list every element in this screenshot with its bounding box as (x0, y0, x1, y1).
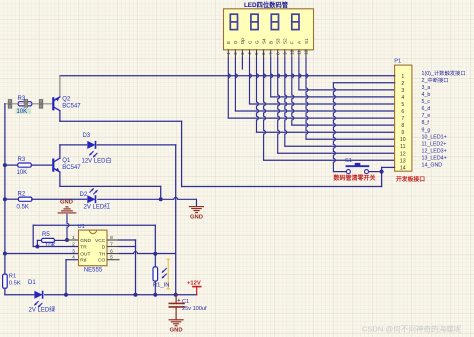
svg-text:S1: S1 (345, 158, 352, 164)
wire A: TR net top (33, 225, 155, 254)
svg-text:R3: R3 (18, 96, 26, 102)
junction rail/pin4 (64, 293, 68, 297)
junction TH/R1_IN (153, 252, 157, 256)
wire D3 cathode right (97, 144, 176, 146)
wire Q2 net: y121 across (60, 120, 182, 122)
svg-text:C1: C1 (182, 299, 189, 305)
ground GND1 (inverted, above pin1 wire) (58, 207, 76, 213)
svg-text:4: 4 (72, 255, 75, 261)
label GND1 (60, 200, 73, 206)
svg-text:GND: GND (190, 214, 203, 220)
wire left rail (4, 104, 6, 274)
svg-text:11_LED2+: 11_LED2+ (422, 141, 447, 147)
wire left rail to R3 base (gray/selected) (5, 103, 53, 105)
label R5 value 10K (45, 243, 56, 249)
svg-text:8: 8 (401, 123, 404, 129)
svg-text:2_中断接口: 2_中断接口 (422, 76, 449, 84)
wire display pin 10 (F) to P1 pin 8 (292, 57, 395, 125)
power +12V (193, 287, 201, 295)
wire rail to R2 (5, 198, 19, 200)
wire R2 to D2 (32, 198, 87, 200)
label R2 designator (18, 191, 26, 197)
transistor Q2 BC547 (53, 97, 60, 111)
svg-text:BC547: BC547 (62, 104, 81, 110)
wire Q2 collector down (59, 111, 61, 122)
svg-text:12V LED白: 12V LED白 (82, 157, 112, 165)
wire switch right lead (369, 171, 382, 173)
svg-text:开发板接口: 开发板接口 (396, 175, 425, 183)
svg-text:GND: GND (80, 238, 91, 244)
svg-text:Rd: Rd (80, 258, 86, 264)
svg-text:9: 9 (401, 130, 404, 136)
junction left rail OUT (3, 252, 7, 256)
photoresistor R1_IN body (153, 267, 158, 281)
wire R5 right to junction (55, 239, 68, 241)
label S1 (345, 158, 352, 164)
svg-text:14: 14 (400, 165, 406, 171)
svg-text:S4: S4 (261, 38, 266, 44)
label R3b value 10K (17, 170, 28, 176)
svg-text:R2: R2 (18, 191, 26, 197)
resistor R2 body (18, 197, 32, 201)
wire display pin 2 (D) to P1 pin 6 (235, 57, 394, 111)
label C1 (182, 299, 189, 305)
wire R1_IN top lead (154, 254, 156, 267)
svg-text:1: 1 (72, 235, 75, 241)
wire rail to R3b (5, 164, 18, 166)
diode D2 2V LED red (87, 195, 95, 203)
label Q1 (62, 158, 71, 164)
ground GND3 (bottom) (169, 320, 183, 326)
svg-text:10K: 10K (17, 170, 28, 176)
junction R5 left (35, 245, 39, 249)
capacitor C1 leads and plates (169, 295, 184, 320)
LED D1 emission arrows (34, 301, 42, 307)
svg-text:CSDN @何不问神奇的海螺呢: CSDN @何不问神奇的海螺呢 (362, 324, 462, 334)
wire Q2 net: y186.5 long to switch (182, 186, 382, 188)
label clear switch (334, 174, 376, 182)
wire display pin 5 (G) to P1 pin 9 (257, 57, 395, 132)
svg-text:S1: S1 (304, 38, 309, 44)
wire bottom rail (45, 294, 197, 296)
svg-text:0.5K: 0.5K (17, 204, 29, 210)
svg-text:14_GND: 14_GND (422, 163, 443, 169)
resistor R3 (second) body (18, 163, 32, 167)
wire OUT row from rail (5, 253, 79, 255)
svg-text:4: 4 (401, 95, 404, 101)
label Q2 BC547 (62, 104, 81, 110)
svg-text:12_LED3+: 12_LED3+ (422, 148, 447, 154)
wire D3 net down x175.7 (175, 145, 177, 295)
svg-text:数码管清零开关: 数码管清零开关 (334, 174, 376, 182)
svg-text:R3: R3 (18, 157, 26, 163)
svg-text:7_e: 7_e (422, 113, 431, 119)
label R3 designator (18, 96, 26, 102)
connector P1 pin numbers 1-14 (400, 74, 406, 172)
NE555 pin names and numbers (72, 235, 119, 264)
wire R1_IN bottom lead (154, 281, 156, 295)
wire D pin7 to VCC vertical (119, 246, 136, 248)
IC U1 NE555 body (79, 230, 108, 266)
net labels at P1 (422, 69, 466, 169)
label GND3 (170, 328, 183, 334)
label NE555 (84, 268, 103, 274)
svg-text:5_c: 5_c (422, 99, 431, 105)
label LED display title (244, 0, 289, 9)
svg-text:NE555: NE555 (84, 268, 103, 274)
junction left rail R2 (3, 197, 7, 201)
svg-text:G: G (254, 40, 259, 44)
svg-text:TH: TH (99, 251, 106, 257)
svg-text:10K: 10K (45, 243, 56, 249)
svg-text:GND: GND (60, 200, 73, 206)
svg-text:B: B (268, 41, 273, 44)
R1_IN highlight line (167, 259, 170, 289)
svg-text:11: 11 (400, 144, 405, 150)
wire display pin 9 (S2) to P1 pin 11 (285, 57, 395, 146)
svg-text:11: 11 (297, 50, 302, 55)
label Q2 (62, 97, 71, 103)
svg-text:2: 2 (72, 242, 75, 248)
label D3 designator (83, 133, 91, 139)
svg-text:Dp: Dp (240, 38, 245, 44)
label R2 value 0.5K (17, 204, 29, 210)
display pin stubs and numbers (226, 49, 309, 57)
wire display pin 8 (S3) to P1 pin 12 (278, 57, 395, 153)
label R1 value 0.5K (9, 280, 21, 286)
wire D2 to GND (hop over x175.7) (97, 197, 196, 199)
wire Q1 emitter down (60, 172, 161, 199)
svg-text:2V LED红: 2V LED红 (84, 202, 111, 210)
wire R3b to Q1 base (31, 164, 52, 166)
connector P1 body (395, 65, 412, 171)
svg-text:10: 10 (400, 137, 406, 143)
display digit glyphs (230, 14, 299, 29)
svg-text:TR: TR (80, 244, 87, 250)
svg-text:7: 7 (401, 116, 404, 122)
svg-text:OUT: OUT (80, 251, 90, 257)
label C1 value (182, 306, 207, 312)
wire rail below R1 (5, 288, 34, 295)
svg-text:+: + (177, 298, 180, 304)
label R1 designator (9, 274, 16, 280)
svg-text:13_LED4+: 13_LED4+ (422, 155, 447, 161)
svg-text:GND: GND (170, 328, 183, 334)
LED D3 emission arrows (89, 151, 97, 157)
wire display pin 3 Dp stub (unconnected) (241, 57, 243, 69)
R1_IN light arrows (162, 268, 167, 278)
wire display pin 6 (S4) to P1 pin 13 (264, 57, 395, 160)
resistor R3 (selected) body (18, 102, 32, 106)
label C1 plus (177, 298, 180, 304)
svg-text:D2: D2 (80, 192, 88, 198)
svg-text:P1: P1 (394, 59, 401, 65)
svg-text:LED四位数码管: LED四位数码管 (244, 0, 289, 9)
wire display pin 1 (E) to P1 pin 7 (228, 57, 394, 118)
label D1 value (29, 306, 56, 314)
svg-text:12: 12 (304, 49, 309, 54)
svg-text:R1: R1 (9, 274, 16, 280)
wire display pin 11 (A) to P1 pin 3 (299, 57, 395, 90)
wire TH pin6 to R1_IN (hop over x135.5) (119, 252, 176, 254)
selection handles around R3 (8, 100, 43, 109)
junction S1 right (380, 170, 384, 174)
resistor R1 body (3, 274, 8, 288)
svg-text:S3: S3 (276, 38, 281, 44)
wire Q2 emitter stub (gray/selected) (59, 76, 61, 97)
svg-text:Q2: Q2 (62, 97, 71, 103)
diode D3 12V LED white (87, 141, 95, 149)
junction left rail R3b (3, 163, 7, 167)
svg-text:Q1: Q1 (62, 158, 71, 164)
LED D2 emission arrows (90, 188, 98, 194)
junction R5/pin1 (65, 238, 69, 242)
watermark (362, 324, 462, 334)
wire junction up to P1 pin14 (382, 167, 395, 171)
wire pin1 stub (67, 239, 79, 241)
svg-text:5: 5 (401, 102, 404, 108)
wire TR row (33, 246, 78, 248)
wire P1 pin2 to switch: down x333.4 (333, 83, 394, 172)
svg-text:2: 2 (401, 81, 404, 87)
svg-text:6: 6 (401, 109, 404, 115)
label +12V (187, 281, 201, 287)
label R5 designator (42, 232, 50, 238)
svg-text:+12V: +12V (187, 281, 201, 287)
svg-text:25v 100uf: 25v 100uf (182, 306, 207, 312)
resistor R5 body (42, 238, 55, 242)
wire Q2 net: down x181.6 (181, 121, 183, 186)
connector P1 designator (394, 59, 401, 65)
svg-text:0.5K: 0.5K (9, 280, 21, 286)
svg-text:2V LED绿: 2V LED绿 (29, 306, 56, 314)
svg-text:R5: R5 (42, 232, 50, 238)
label Q1 BC547 (62, 165, 81, 171)
wire display pin 4 (C) to P1 pin 5 (250, 57, 395, 104)
wire switch left lead (333, 171, 346, 173)
svg-text:3_a: 3_a (422, 85, 431, 91)
junction rail/R1_IN (153, 293, 157, 297)
wire display pin 7 (B) to P1 pin 4 (271, 57, 395, 97)
svg-text:9_g: 9_g (422, 127, 431, 133)
wire pin4 link (66, 260, 79, 295)
label D2 designator (80, 192, 88, 198)
label U1 (78, 224, 85, 230)
svg-text:VCC: VCC (95, 238, 106, 244)
label D2 value (84, 202, 111, 210)
wire display pin 12 (S1) to P1 pin 10 (306, 57, 395, 139)
wire VCC pin8 right-down (119, 240, 136, 295)
label R3b designator (18, 157, 26, 163)
label R1_IN (153, 283, 169, 289)
svg-text:3: 3 (72, 249, 75, 255)
svg-text:U1: U1 (78, 224, 85, 230)
svg-text:6_d: 6_d (422, 106, 431, 112)
svg-text:F: F (290, 41, 295, 44)
svg-text:S2: S2 (283, 38, 288, 44)
wire R5 left hook (37, 240, 41, 246)
junction rail/VCC (134, 293, 138, 297)
label D3 value (82, 157, 112, 165)
svg-text:12: 12 (400, 151, 406, 157)
svg-text:1(0)_计数触发接口: 1(0)_计数触发接口 (422, 69, 466, 77)
label development board interface (396, 175, 425, 183)
junction Q1-emitter/D2 (159, 197, 163, 201)
transistor Q1 BC547 (53, 158, 60, 172)
svg-text:8_f: 8_f (422, 120, 430, 126)
svg-text:E: E (226, 41, 231, 44)
svg-text:D: D (102, 244, 106, 250)
svg-text:BC547: BC547 (62, 165, 81, 171)
svg-text:3: 3 (401, 88, 404, 94)
label D1 designator (28, 280, 36, 286)
wire net pin1: Q2 emitter to P1 pin 1 (60, 75, 395, 77)
svg-text:10_LED1+: 10_LED1+ (422, 134, 447, 140)
wire Q2 net: up to S1 junction (381, 172, 383, 187)
svg-text:4_b: 4_b (422, 92, 431, 98)
svg-text:1: 1 (401, 74, 404, 80)
ground GND2 (mid) (190, 199, 204, 212)
svg-text:10K: 10K (17, 109, 28, 115)
svg-text:D3: D3 (83, 133, 91, 139)
svg-text:D1: D1 (28, 280, 36, 286)
4-digit 7-segment display DS1 body (224, 9, 314, 50)
svg-text:10: 10 (289, 49, 294, 54)
label R3 value 10K (16, 108, 32, 115)
display segment pin names (226, 38, 309, 44)
label GND2 (190, 214, 203, 220)
junction rail/D3net (174, 293, 178, 297)
switch S1 pushbutton (346, 163, 368, 174)
wire Q1 collector up to D3 row (60, 145, 87, 158)
wire GND1 down to pin1 junction (hop over wire A) (67, 214, 69, 240)
svg-text:CO: CO (98, 258, 105, 264)
svg-text:13: 13 (400, 158, 406, 164)
diode D1 2V LED green (34, 291, 42, 299)
